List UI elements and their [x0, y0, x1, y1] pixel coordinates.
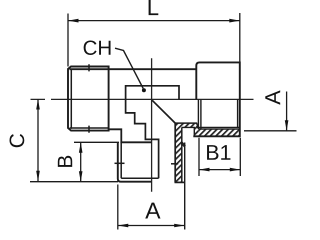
- dimension A right extension: [244, 130, 297, 132]
- hatch arm under port bottom: [175, 123, 194, 127]
- branch bore chamfer diagonal: [152, 100, 175, 123]
- dimension B1 line: [199, 169, 240, 171]
- dimension C arrows: [36, 99, 40, 110]
- hatch branch right wall strip: [175, 123, 182, 182]
- centerline vertical branch: [151, 58, 153, 192]
- right female port outline: [193, 62, 240, 136]
- left male end outline: [68, 67, 109, 131]
- body bottom left step: [109, 129, 152, 142]
- branch left thread tick: [115, 162, 125, 164]
- label A right: [265, 90, 280, 104]
- CH leader dot: [142, 88, 146, 92]
- female thread runout verticals: [198, 100, 237, 130]
- female thread crest line: [197, 126, 240, 128]
- label B: [58, 156, 72, 167]
- female thread root line: [199, 128, 240, 130]
- dimension A bottom line: [118, 225, 185, 227]
- hex flat edge: [126, 86, 179, 178]
- C B bottom extension line: [30, 181, 118, 183]
- dimension B top extension: [74, 141, 119, 143]
- centerline horizontal axis: [31, 98, 254, 100]
- dimension A bottom arrows: [118, 224, 129, 228]
- branch left thread root: [121, 142, 158, 178]
- arm top edge: [175, 123, 199, 129]
- dimension B line: [80, 142, 82, 181]
- CH leader line: [115, 48, 143, 88]
- dimension B1 extension lines: [199, 138, 240, 176]
- dimension C line: [37, 99, 39, 181]
- branch right thread tick: [171, 163, 178, 165]
- dimension A bottom extension left: [117, 185, 119, 230]
- branch thread root right: [181, 127, 183, 182]
- hatch thread runout wedge: [181, 142, 185, 146]
- dimension A right line: [286, 92, 288, 131]
- branch bore right wall: [174, 123, 176, 182]
- dimension B arrows: [79, 142, 83, 153]
- dimension A right arrow: [285, 120, 289, 131]
- dimension L arrows: [68, 19, 79, 23]
- body top line: [70, 68, 197, 70]
- hatch port bottom band: [199, 129, 240, 136]
- left male end thread root lines: [70, 69, 109, 129]
- dimension B1 arrows: [199, 168, 210, 172]
- left male end thread ticks: [88, 64, 90, 133]
- notch top edge: [182, 127, 195, 136]
- label A bottom: [145, 203, 160, 219]
- label L: [149, 0, 159, 15]
- branch thread crest right / A extension: [184, 143, 186, 230]
- dimension L line: [68, 20, 240, 22]
- label B1: [207, 145, 230, 160]
- label CH: [84, 40, 111, 55]
- branch section bottom: [175, 181, 185, 183]
- branch left outline: [118, 142, 152, 181]
- dimension L extension lines: [68, 13, 240, 67]
- label C: [10, 134, 25, 147]
- hatch port bottom join: [194, 123, 199, 136]
